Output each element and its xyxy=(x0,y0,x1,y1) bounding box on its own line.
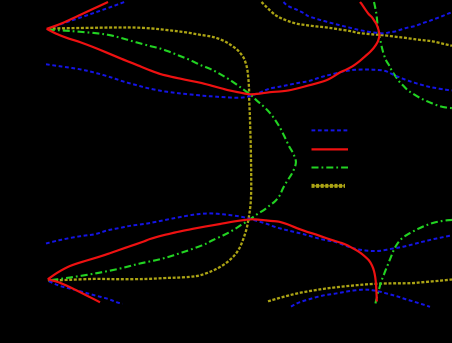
legend: green dash-dot sample xyxy=(312,166,349,168)
blue dashed curve: top-right V xyxy=(284,2,452,33)
red solid curve: top branch through crossing and right apex xyxy=(47,2,380,94)
legend: red solid sample xyxy=(312,148,349,150)
blue dashed curve: bottom-right hump xyxy=(291,290,430,307)
blue dashed curve: top-left short branch xyxy=(54,2,125,27)
legend: olive dashed sample squares xyxy=(312,184,346,188)
green dash-dot chevron: left cusps to right bulge xyxy=(48,30,296,281)
olive curve: top-right diagonal xyxy=(262,2,452,46)
legend: blue dashed sample xyxy=(312,129,349,131)
green dash-dot curve: bottom-right xyxy=(376,220,452,304)
blue dashed curve: top long wavy branch xyxy=(46,64,452,97)
blue dashed curve: bottom-left short branch xyxy=(49,281,122,304)
olive curve: top-left flat / central vertical / bottom-left flat (Z-shape) xyxy=(48,27,251,280)
green dash-dot curve: top-right xyxy=(374,2,452,108)
red solid curve: bottom-left lower cusp branch xyxy=(48,279,100,302)
red solid curve: top-left upper cusp branch xyxy=(47,2,108,29)
legend: olive dashed sample xyxy=(312,185,346,187)
red solid curve: bottom branch through crossing xyxy=(48,219,377,301)
blue dashed curve: bottom long wavy branch xyxy=(46,213,452,251)
olive curve: bottom-right line xyxy=(268,280,452,302)
